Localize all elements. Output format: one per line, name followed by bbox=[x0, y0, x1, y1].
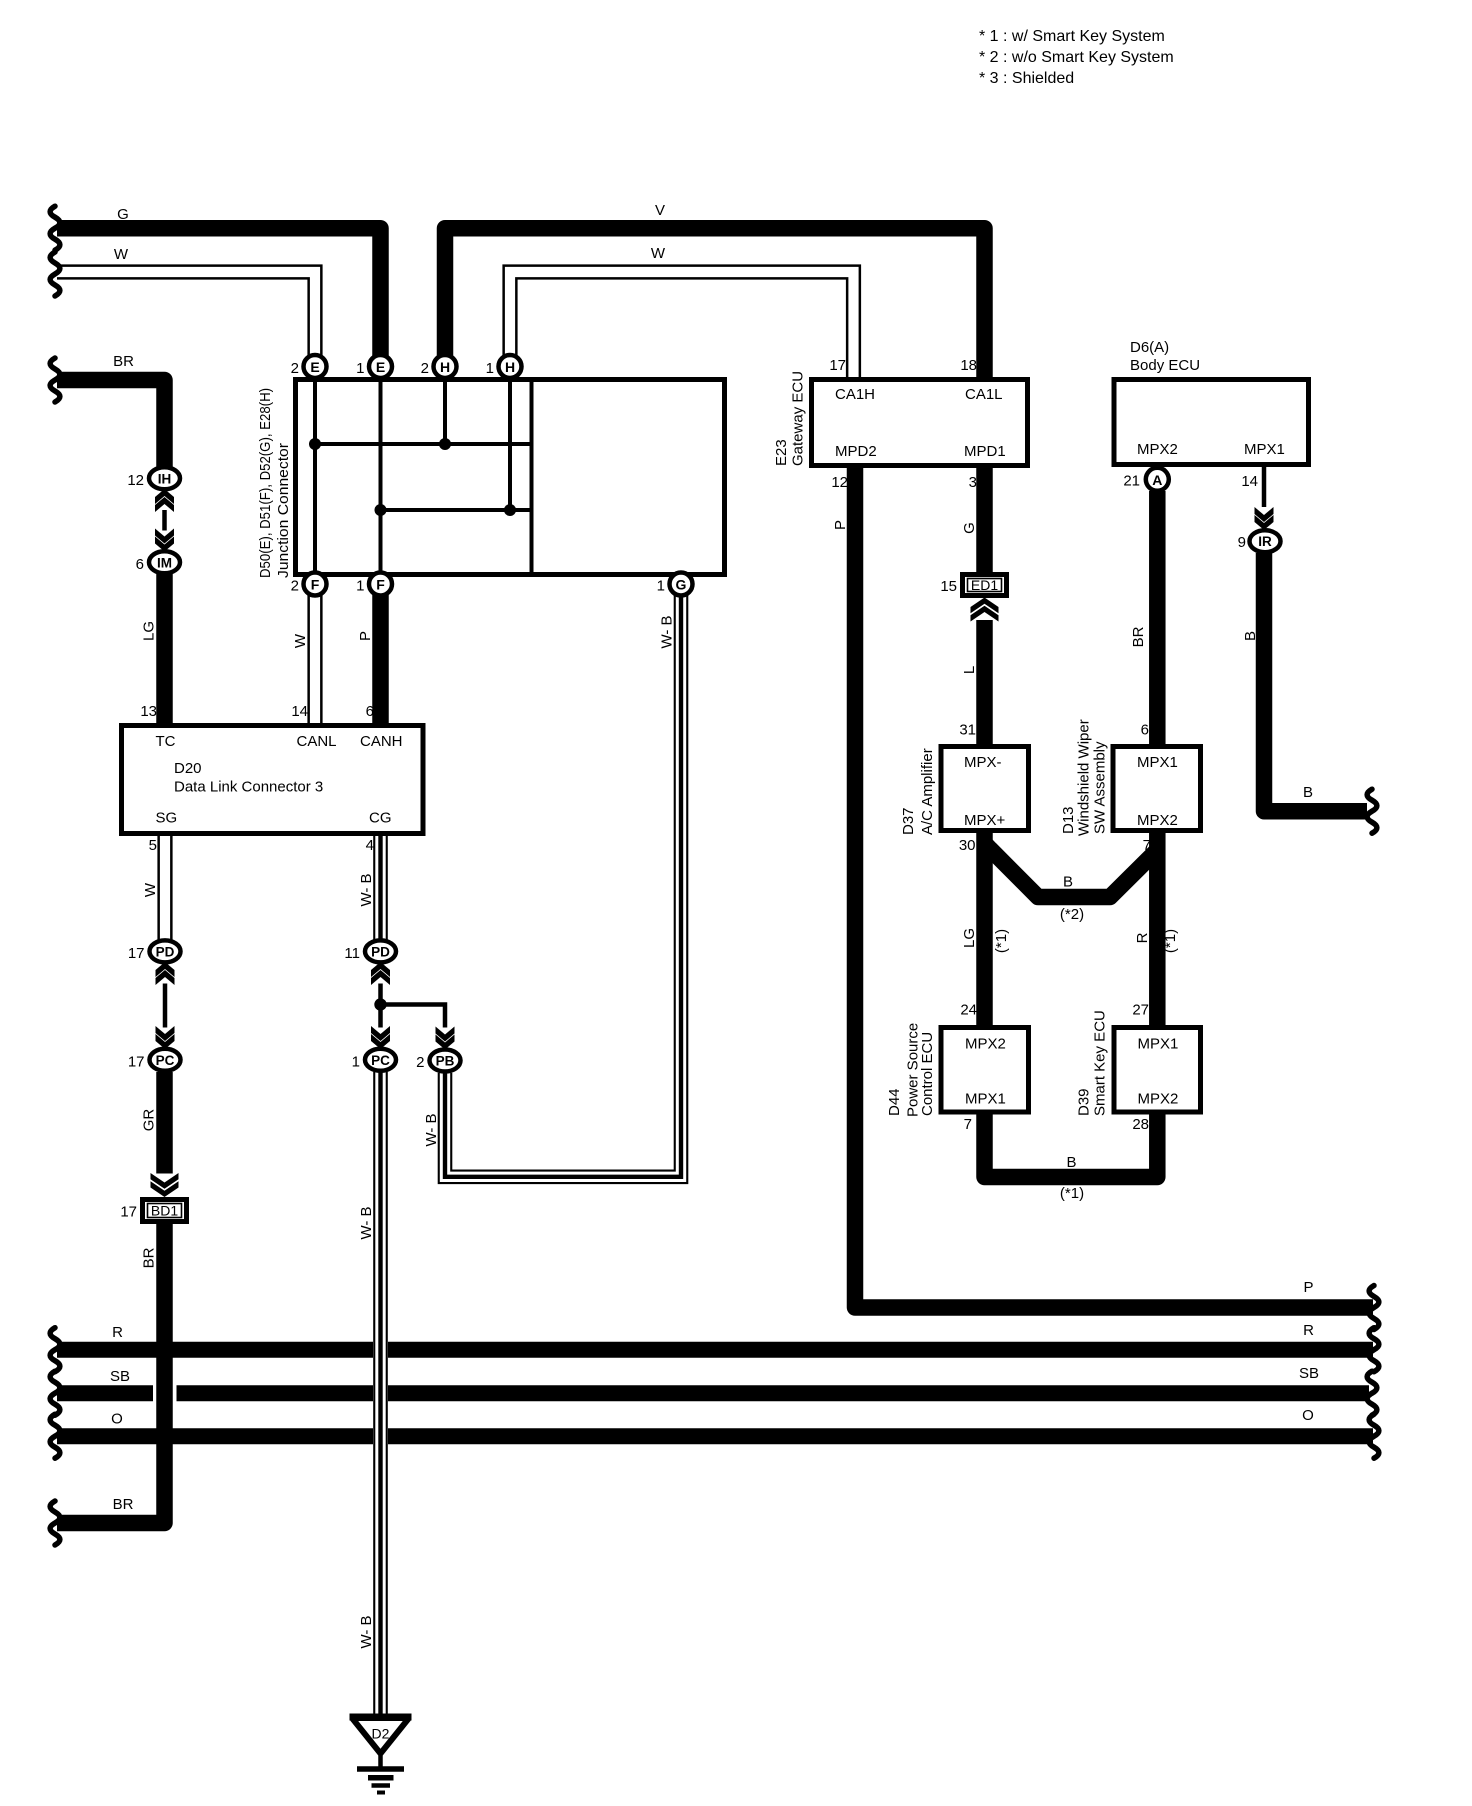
svg-text:2: 2 bbox=[416, 1054, 424, 1071]
connector circle A pin 21 bbox=[1146, 468, 1169, 491]
svg-text:BR: BR bbox=[113, 1496, 134, 1513]
svg-text:E: E bbox=[310, 359, 319, 375]
svg-text:ED1: ED1 bbox=[971, 577, 998, 593]
box D44 Power Source Control ECU bbox=[941, 1028, 1029, 1113]
wire bus R bbox=[57, 1342, 1373, 1358]
svg-text:31: 31 bbox=[959, 722, 976, 739]
arrow down into PB bbox=[436, 1027, 455, 1050]
wire internal E2-F2 vertical bbox=[313, 382, 317, 572]
svg-text:* 2 : w/o Smart Key System: * 2 : w/o Smart Key System bbox=[979, 49, 1174, 66]
svg-text:PD: PD bbox=[156, 944, 175, 959]
svg-text:F: F bbox=[311, 577, 320, 593]
connector circle F pin 1 bbox=[369, 573, 392, 596]
svg-text:IM: IM bbox=[157, 555, 172, 570]
svg-text:B: B bbox=[1063, 874, 1073, 891]
svg-text:H: H bbox=[440, 359, 450, 375]
svg-text:D13: D13 bbox=[1060, 806, 1077, 834]
svg-text:CANH: CANH bbox=[360, 733, 403, 750]
connector ellipse IR (pin 9) bbox=[1250, 530, 1281, 552]
svg-text:L: L bbox=[961, 666, 978, 674]
connector ellipse IM bbox=[149, 551, 180, 573]
svg-text:BD1: BD1 bbox=[151, 1203, 178, 1219]
wire BR from BD1 down to BR bus, corner to left break bbox=[57, 1224, 165, 1523]
svg-text:MPX1: MPX1 bbox=[1137, 754, 1178, 771]
svg-text:F: F bbox=[376, 577, 385, 593]
svg-text:* 3 : Shielded: * 3 : Shielded bbox=[979, 70, 1074, 87]
svg-text:D20: D20 bbox=[174, 760, 202, 777]
node dot E2 line bbox=[309, 438, 321, 450]
svg-text:17: 17 bbox=[128, 1053, 145, 1070]
svg-text:* 1 : w/ Smart Key System: * 1 : w/ Smart Key System bbox=[979, 28, 1165, 45]
white casing where BR wire crosses SB bus bbox=[153, 1384, 177, 1402]
white casings where W-B ground wire crosses R, SB, O buses bbox=[373, 1341, 388, 1359]
svg-text:W: W bbox=[292, 633, 309, 648]
svg-text:MPX1: MPX1 bbox=[965, 1091, 1006, 1108]
svg-text:MPD1: MPD1 bbox=[964, 443, 1006, 460]
wire thin link PD to PC (left) bbox=[163, 984, 168, 1028]
svg-text:D37: D37 bbox=[900, 807, 917, 835]
wire BR (thick, Body ECU A pin 21 down to D13 pin 6) bbox=[1149, 491, 1166, 745]
wire W (hollow, junction 2(F) down to D20 pin 14 CANL) bbox=[307, 595, 322, 724]
svg-text:1: 1 bbox=[356, 360, 364, 377]
svg-text:D2: D2 bbox=[372, 1726, 390, 1742]
break symbol BR bus left bbox=[50, 1501, 60, 1545]
svg-text:(*1): (*1) bbox=[1162, 929, 1179, 953]
break symbol B wire right bbox=[1367, 789, 1377, 833]
svg-text:MPX+: MPX+ bbox=[964, 812, 1006, 829]
box D20 Data Link Connector 3 bbox=[122, 726, 424, 834]
box D39 Smart Key ECU bbox=[1114, 1028, 1201, 1113]
svg-text:D50(E), D51(F), D52(G), E28(H): D50(E), D51(F), D52(G), E28(H) bbox=[257, 388, 274, 578]
connector circle E pin 1 bbox=[369, 355, 392, 378]
svg-text:A: A bbox=[1152, 472, 1162, 488]
connector circle E pin 2 bbox=[304, 355, 327, 378]
wire P (thick, junction 1(F) down to D20 pin 6 CANH) bbox=[372, 595, 389, 724]
arrow up into IH bbox=[155, 489, 174, 512]
wire W (hollow, D20 SG pin 5 down to PD connector) bbox=[157, 834, 172, 940]
wire B (*2) (thick link D37 pin 30 to D13 pin 7) bbox=[985, 843, 1158, 897]
svg-text:W- B: W- B bbox=[423, 1113, 440, 1146]
wire W (hollow, from junction 1(H) up, right, down to Gateway CA1H pin 17) bbox=[510, 272, 854, 378]
svg-text:B: B bbox=[1066, 1154, 1076, 1171]
ground symbol D2 bbox=[350, 1717, 412, 1793]
shield box BD1 bbox=[143, 1200, 187, 1222]
svg-text:CA1L: CA1L bbox=[965, 386, 1003, 403]
connector circle H pin 2 bbox=[434, 355, 457, 378]
svg-text:D44: D44 bbox=[886, 1088, 903, 1116]
break symbol W wire left bbox=[50, 252, 60, 296]
break symbol G wire left bbox=[50, 206, 60, 250]
break symbol SB bus left bbox=[50, 1371, 60, 1415]
wire LG (*1) (thick, D37 pin 30 down to D44 pin 24) bbox=[976, 831, 993, 1026]
box D13 Windshield Wiper SW Assembly bbox=[1113, 747, 1201, 831]
svg-text:BR: BR bbox=[1130, 626, 1147, 647]
arrow up into PD (left) bbox=[156, 962, 175, 985]
svg-text:2: 2 bbox=[421, 360, 429, 377]
svg-text:6: 6 bbox=[1141, 722, 1149, 739]
svg-text:27: 27 bbox=[1132, 1002, 1149, 1019]
wire W-B (3-line, D20 CG pin 4 down to PD connector) bbox=[373, 834, 388, 940]
wire LG (thick, IM down to D20 pin 13 TC) bbox=[156, 574, 173, 724]
break symbol R bus right bbox=[1369, 1328, 1379, 1372]
svg-text:(*2): (*2) bbox=[1060, 906, 1084, 923]
junction connector internal divider bbox=[530, 382, 534, 572]
svg-text:MPX-: MPX- bbox=[964, 754, 1002, 771]
arrow down into IR bbox=[1255, 507, 1274, 530]
wire bus SB bbox=[57, 1385, 1369, 1401]
svg-text:30: 30 bbox=[959, 837, 976, 854]
svg-text:MPX2: MPX2 bbox=[1137, 812, 1178, 829]
break symbol BR wire left bbox=[50, 358, 60, 402]
svg-text:W- B: W- B bbox=[659, 615, 676, 648]
svg-text:B: B bbox=[1242, 631, 1259, 641]
svg-text:CA1H: CA1H bbox=[835, 386, 875, 403]
svg-text:12: 12 bbox=[127, 472, 144, 489]
svg-text:W- B: W- B bbox=[358, 1615, 375, 1648]
connector ellipse PD (right, pin 11) bbox=[365, 940, 396, 962]
svg-text:R: R bbox=[1303, 1322, 1314, 1339]
svg-text:(*1): (*1) bbox=[1060, 1185, 1084, 1202]
svg-text:SW Assembly: SW Assembly bbox=[1092, 741, 1109, 834]
connector ellipse PB (pin 2) bbox=[430, 1050, 461, 1072]
arrow down into BD1 shield bbox=[151, 1173, 179, 1197]
svg-text:R: R bbox=[112, 1324, 123, 1341]
svg-text:PC: PC bbox=[371, 1053, 390, 1068]
svg-text:W: W bbox=[142, 882, 159, 897]
svg-text:LG: LG bbox=[961, 928, 978, 948]
box D6(A) Body ECU bbox=[1114, 380, 1309, 465]
break symbol SB bus right bbox=[1367, 1371, 1377, 1415]
wire bus P (from Gateway ECU MPD2 pin 12 down and right) bbox=[855, 468, 1373, 1308]
svg-text:W- B: W- B bbox=[358, 1206, 375, 1239]
wire R (*1) (thick, D13 pin 7 down to D39 pin 27) bbox=[1149, 831, 1166, 1026]
svg-text:14: 14 bbox=[291, 703, 308, 720]
svg-text:Gateway ECU: Gateway ECU bbox=[790, 371, 807, 466]
svg-text:SB: SB bbox=[1299, 1365, 1319, 1382]
svg-text:2: 2 bbox=[291, 360, 299, 377]
svg-text:E23: E23 bbox=[773, 439, 790, 466]
svg-text:7: 7 bbox=[964, 1116, 972, 1133]
connector ellipse PD (left, pin 17) bbox=[150, 940, 181, 962]
svg-text:H: H bbox=[505, 359, 515, 375]
svg-text:17: 17 bbox=[128, 945, 145, 962]
svg-text:TC: TC bbox=[156, 733, 176, 750]
svg-text:12: 12 bbox=[831, 474, 848, 491]
svg-text:MPX2: MPX2 bbox=[1138, 1091, 1179, 1108]
svg-text:21: 21 bbox=[1123, 473, 1140, 490]
svg-text:1: 1 bbox=[356, 578, 364, 595]
svg-text:G: G bbox=[676, 577, 687, 593]
wire W (hollow, from left break to junction 2(E)) bbox=[57, 272, 315, 356]
break symbol R bus left bbox=[50, 1328, 60, 1372]
svg-text:W: W bbox=[114, 246, 129, 263]
svg-text:15: 15 bbox=[940, 578, 957, 595]
svg-text:CANL: CANL bbox=[297, 733, 337, 750]
svg-text:MPX2: MPX2 bbox=[1137, 441, 1178, 458]
svg-text:W- B: W- B bbox=[358, 873, 375, 906]
wire W-B (3-line, PC down through buses to ground D2) bbox=[373, 1072, 388, 1714]
svg-text:MPX2: MPX2 bbox=[965, 1036, 1006, 1053]
svg-text:1: 1 bbox=[657, 578, 665, 595]
svg-text:17: 17 bbox=[120, 1204, 137, 1221]
wire W-B (3-line, junction 1(G) down, left, up to PB connector) bbox=[445, 595, 681, 1177]
svg-text:28: 28 bbox=[1132, 1116, 1149, 1133]
wire internal H2 vertical bbox=[443, 382, 447, 444]
arrow down into PC (left) bbox=[156, 1026, 175, 1049]
svg-text:R: R bbox=[1134, 932, 1151, 943]
svg-text:Windshield Wiper: Windshield Wiper bbox=[1076, 719, 1093, 836]
svg-text:BR: BR bbox=[113, 353, 134, 370]
svg-text:SB: SB bbox=[110, 1368, 130, 1385]
svg-text:18: 18 bbox=[960, 357, 977, 374]
svg-text:Data Link Connector 3: Data Link Connector 3 bbox=[174, 779, 323, 796]
svg-text:5: 5 bbox=[149, 837, 157, 854]
svg-text:Control ECU: Control ECU bbox=[919, 1032, 936, 1116]
svg-text:13: 13 bbox=[140, 703, 157, 720]
svg-text:14: 14 bbox=[1241, 473, 1258, 490]
svg-text:V: V bbox=[655, 202, 665, 219]
svg-text:Smart Key ECU: Smart Key ECU bbox=[1092, 1010, 1109, 1116]
svg-text:SG: SG bbox=[156, 810, 178, 827]
wire internal E1-F1 vertical bbox=[379, 382, 383, 572]
svg-text:7: 7 bbox=[1143, 837, 1151, 854]
svg-text:P: P bbox=[357, 631, 374, 641]
svg-text:A/C Amplifier: A/C Amplifier bbox=[919, 748, 936, 835]
svg-text:GR: GR bbox=[141, 1109, 158, 1132]
svg-text:MPD2: MPD2 bbox=[835, 443, 877, 460]
wire BR (thick, from left break to IH connector) bbox=[57, 380, 165, 467]
wire B (thick, IR down, right to break) bbox=[1264, 553, 1367, 811]
junction connector D50(E), D51(F), D52(G), E28(H) box bbox=[296, 380, 725, 575]
svg-text:1: 1 bbox=[352, 1053, 360, 1070]
svg-text:BR: BR bbox=[141, 1247, 158, 1268]
connector ellipse PC (right, pin 1) bbox=[365, 1049, 396, 1071]
svg-text:PD: PD bbox=[371, 944, 390, 959]
svg-text:Body ECU: Body ECU bbox=[1130, 357, 1200, 374]
wire G (thick, Gateway MPD1 pin 3 down to ED1) bbox=[976, 468, 993, 573]
wire internal horizontal y444 bbox=[315, 442, 531, 446]
svg-text:B: B bbox=[1303, 784, 1313, 801]
node dot F1 line bbox=[375, 504, 387, 516]
connector ellipse PC (left, pin 17) bbox=[150, 1049, 181, 1071]
wire bus O bbox=[57, 1428, 1373, 1444]
svg-text:W: W bbox=[651, 245, 666, 262]
wire B (*1) (thick link D44 pin 7 to D39 pin 28) bbox=[985, 1113, 1158, 1177]
svg-text:PC: PC bbox=[156, 1053, 175, 1068]
connector circle F pin 2 bbox=[304, 573, 327, 596]
svg-text:MPX1: MPX1 bbox=[1138, 1036, 1179, 1053]
break symbol P bus right bbox=[1369, 1286, 1379, 1330]
svg-text:17: 17 bbox=[829, 357, 846, 374]
svg-text:CG: CG bbox=[369, 810, 392, 827]
svg-text:O: O bbox=[111, 1411, 123, 1428]
node dot H2 line bbox=[439, 438, 451, 450]
node dot H1 line bbox=[504, 504, 516, 516]
svg-text:P: P bbox=[1303, 1279, 1313, 1296]
box E23 Gateway ECU bbox=[812, 380, 1028, 466]
svg-text:E: E bbox=[376, 359, 385, 375]
wire internal H1 vertical bbox=[508, 382, 512, 510]
svg-text:MPX1: MPX1 bbox=[1244, 441, 1285, 458]
svg-text:O: O bbox=[1302, 1407, 1314, 1424]
svg-text:G: G bbox=[117, 206, 129, 223]
connector circle G pin 1 bbox=[670, 573, 693, 596]
svg-text:D39: D39 bbox=[1076, 1088, 1093, 1116]
svg-text:P: P bbox=[832, 520, 849, 530]
wire between IH and IM (thin mating line) bbox=[162, 510, 167, 531]
connector circle H pin 1 bbox=[499, 355, 522, 378]
wire L (thick, below ED1 arrow down to D37 pin 31) bbox=[976, 620, 993, 745]
svg-text:LG: LG bbox=[141, 621, 158, 641]
connector ellipse IH bbox=[149, 467, 180, 489]
wire V (thick, from junction 2(H) up, right, down to Gateway CA1L pin 18) bbox=[445, 228, 985, 378]
wire thin link PD to PC/PB with junction (right) bbox=[378, 984, 383, 1028]
svg-text:(*1): (*1) bbox=[993, 929, 1010, 953]
svg-text:D6(A): D6(A) bbox=[1130, 339, 1169, 356]
node junction dot at PD/PC/PB branch bbox=[374, 998, 386, 1010]
break symbol O bus left bbox=[50, 1414, 60, 1458]
wire thin link Body ECU MPX1 pin 14 down to IR bbox=[1262, 467, 1267, 507]
svg-text:1: 1 bbox=[486, 360, 494, 377]
svg-text:IR: IR bbox=[1258, 534, 1272, 549]
svg-text:G: G bbox=[961, 522, 978, 534]
arrow up into ED1 shield bbox=[971, 598, 999, 622]
svg-text:PB: PB bbox=[436, 1054, 455, 1069]
svg-text:6: 6 bbox=[136, 556, 144, 573]
svg-text:Junction Connector: Junction Connector bbox=[275, 443, 292, 578]
wire GR (thick, PC down to BD1) bbox=[156, 1072, 173, 1174]
arrow up into PD (right) bbox=[371, 962, 390, 985]
svg-text:2: 2 bbox=[291, 578, 299, 595]
svg-text:11: 11 bbox=[344, 945, 360, 962]
svg-text:IH: IH bbox=[158, 471, 172, 486]
svg-text:9: 9 bbox=[1238, 534, 1246, 551]
arrow down into PC (right) bbox=[371, 1026, 390, 1049]
wire G (thick, from left break to junction connector 1(E)) bbox=[57, 228, 381, 356]
svg-text:3: 3 bbox=[969, 474, 977, 491]
svg-text:24: 24 bbox=[960, 1002, 977, 1019]
svg-text:4: 4 bbox=[366, 837, 374, 854]
svg-text:6: 6 bbox=[366, 703, 374, 720]
wire internal horizontal y510 bbox=[381, 508, 532, 512]
arrow down into IM bbox=[155, 529, 174, 552]
break symbol O bus right bbox=[1369, 1414, 1379, 1458]
box D37 A/C Amplifier bbox=[941, 747, 1029, 831]
shield box ED1 bbox=[963, 575, 1007, 596]
